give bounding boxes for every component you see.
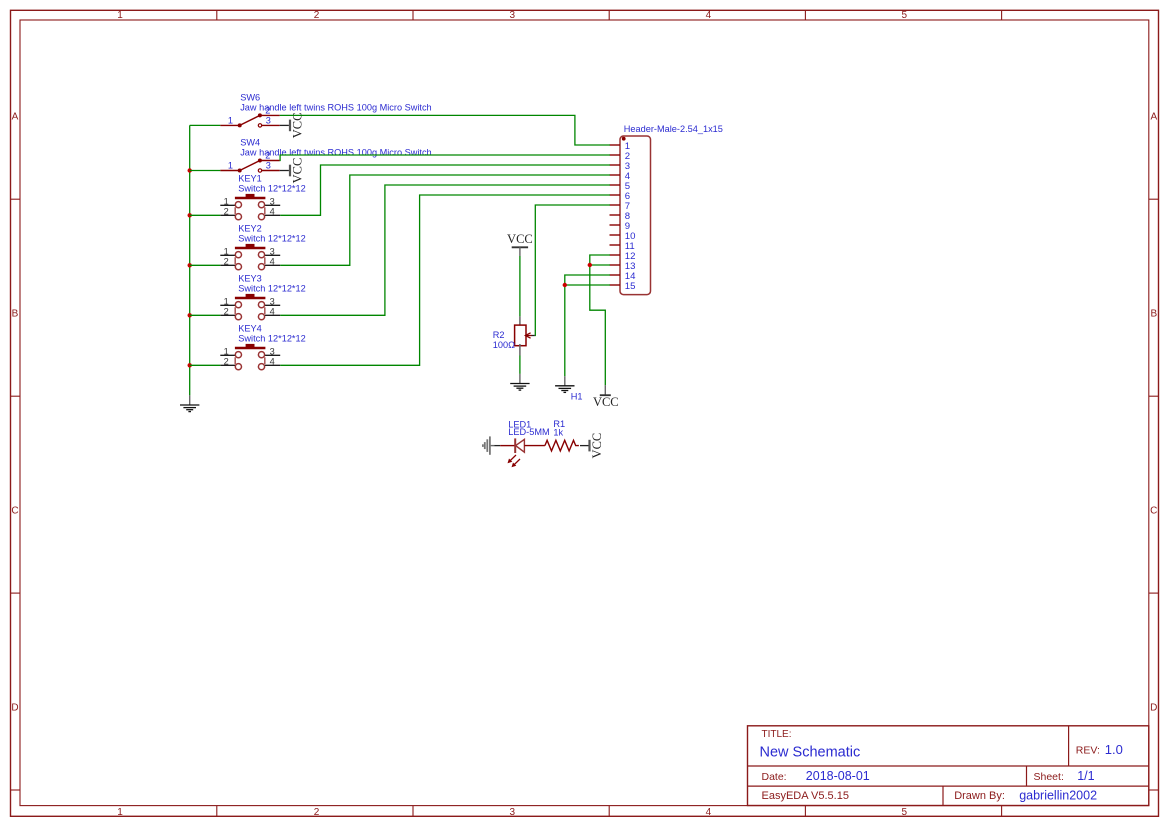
- wire ground to LED1 cathode: [495, 445, 501, 447]
- svg-text:3: 3: [266, 115, 271, 125]
- R2 wiper pin lead: [532, 335, 535, 337]
- header pin 13 stub: [610, 264, 621, 266]
- svg-text:Switch 12*12*12: Switch 12*12*12: [238, 233, 305, 243]
- svg-text:1: 1: [228, 115, 233, 125]
- header pin 4 stub: [610, 174, 621, 176]
- svg-text:gabriellin2002: gabriellin2002: [1019, 788, 1097, 802]
- header pin 9 stub: [610, 224, 621, 226]
- svg-text:A: A: [12, 111, 19, 122]
- wire header pin12 to VCC bottom: [590, 255, 610, 385]
- wire SW4 pin1 to bus: [190, 170, 221, 172]
- svg-text:VCC: VCC: [291, 158, 305, 184]
- svg-text:VCC: VCC: [291, 113, 305, 139]
- header pin 15 stub: [610, 284, 621, 286]
- wire left bus vertical: [189, 125, 191, 395]
- wire header pin7 to R2 wiper: [535, 205, 610, 336]
- svg-text:1: 1: [228, 161, 233, 171]
- svg-text:SW4: SW4: [240, 138, 260, 148]
- svg-text:2: 2: [314, 10, 320, 21]
- svg-text:Header-Male-2.54_1x15: Header-Male-2.54_1x15: [624, 124, 723, 134]
- VCC flag above R2: [507, 232, 533, 256]
- VCC flag at SW4 pin 3: [290, 158, 305, 184]
- svg-text:2018-08-01: 2018-08-01: [806, 769, 870, 783]
- svg-text:2: 2: [314, 807, 320, 818]
- svg-text:1/1: 1/1: [1077, 769, 1094, 783]
- svg-text:2: 2: [224, 256, 229, 266]
- svg-text:4: 4: [270, 356, 275, 366]
- svg-text:1: 1: [224, 246, 229, 256]
- svg-text:1k: 1k: [553, 427, 563, 437]
- R2 bottom pin stub: [519, 344, 521, 356]
- svg-text:4: 4: [706, 807, 712, 818]
- svg-text:1: 1: [117, 10, 123, 21]
- svg-text:15: 15: [625, 281, 636, 292]
- svg-text:SW6: SW6: [240, 92, 260, 102]
- svg-text:4: 4: [270, 206, 275, 216]
- svg-text:3: 3: [270, 196, 275, 206]
- header pin 6 stub: [610, 194, 621, 196]
- svg-text:1: 1: [224, 296, 229, 306]
- svg-text:2: 2: [265, 105, 270, 115]
- junction bus y=170.5: [188, 168, 192, 172]
- potentiometer R2: [493, 325, 532, 350]
- wire KEY pin2 to bus y=365.3: [190, 364, 221, 366]
- svg-text:3: 3: [266, 161, 271, 171]
- svg-text:2: 2: [224, 356, 229, 366]
- svg-text:REV:: REV:: [1076, 745, 1100, 757]
- wire KEY2 pin4 to header pin4: [280, 175, 610, 265]
- svg-text:Date:: Date:: [762, 771, 787, 783]
- wire R1 to VCC: [580, 445, 589, 447]
- svg-text:Switch 12*12*12: Switch 12*12*12: [238, 333, 305, 343]
- connector Header-Male-2.54_1x15: [610, 124, 723, 295]
- svg-text:KEY2: KEY2: [238, 223, 261, 233]
- wire KEY1 pin4 to header pin3: [280, 165, 610, 215]
- junction bus y=365.3: [188, 363, 192, 367]
- junction bus y=215.3: [188, 213, 192, 217]
- pushbutton KEY2: [220, 223, 305, 270]
- svg-text:3: 3: [510, 10, 516, 21]
- svg-text:B: B: [1150, 308, 1157, 319]
- svg-text:D: D: [1150, 702, 1157, 713]
- wire SW4 pin2 to header pin2: [280, 155, 610, 161]
- svg-text:4: 4: [270, 306, 275, 316]
- header pin 1 stub: [610, 144, 621, 146]
- wire VCC to R2 top: [519, 256, 521, 316]
- svg-text:1: 1: [117, 807, 123, 818]
- LED LED1: [500, 419, 549, 467]
- svg-text:5: 5: [902, 10, 908, 21]
- wire R2 bottom to ground: [519, 356, 521, 374]
- svg-text:C: C: [1150, 505, 1157, 516]
- svg-text:KEY1: KEY1: [238, 173, 261, 183]
- frame column numbers: [117, 10, 907, 818]
- ground (bus): [180, 395, 199, 411]
- svg-text:H1: H1: [571, 392, 583, 402]
- wire KEY pin2 to bus y=265.3: [190, 264, 221, 266]
- wire KEY pin2 to bus y=315.3: [190, 314, 221, 316]
- svg-text:4: 4: [706, 10, 712, 21]
- svg-text:1: 1: [224, 196, 229, 206]
- svg-text:2: 2: [224, 306, 229, 316]
- wire KEY3 pin4 to header pin5: [280, 185, 610, 315]
- svg-text:2: 2: [224, 206, 229, 216]
- R2 top pin stub: [519, 316, 521, 325]
- svg-text:3: 3: [510, 807, 516, 818]
- pushbutton KEY1: [220, 173, 305, 219]
- wire header pin14 to H1 ground: [565, 275, 610, 376]
- header pin 2 stub: [610, 154, 621, 156]
- svg-text:3: 3: [270, 296, 275, 306]
- svg-text:KEY3: KEY3: [238, 273, 261, 283]
- resistor R1: [545, 419, 579, 451]
- svg-text:VCC: VCC: [593, 395, 619, 409]
- svg-text:KEY4: KEY4: [238, 323, 261, 333]
- wire KEY4 pin4 to header pin6: [280, 195, 610, 365]
- svg-text:1.0: 1.0: [1105, 742, 1123, 757]
- svg-text:Drawn By:: Drawn By:: [954, 790, 1005, 802]
- header pin 7 stub: [610, 204, 621, 206]
- junction bus y=265.3: [188, 263, 192, 267]
- svg-text:4: 4: [270, 256, 275, 266]
- VCC flag bottom (pin12 net): [593, 385, 619, 409]
- wire KEY pin2 to bus y=215.3: [190, 214, 221, 216]
- header pin 11 stub: [610, 244, 621, 246]
- header pin 5 stub: [610, 184, 621, 186]
- title block: [748, 726, 1149, 806]
- ground H1: [555, 376, 574, 392]
- svg-text:VCC: VCC: [507, 232, 533, 246]
- wire header pin15: [565, 284, 610, 286]
- svg-text:D: D: [11, 702, 18, 713]
- svg-text:3: 3: [270, 246, 275, 256]
- junction pin13: [588, 263, 592, 267]
- ground at LED1 (rotated left): [483, 436, 495, 454]
- header pin 8 stub: [610, 214, 621, 216]
- svg-text:100Ω: 100Ω: [493, 340, 515, 350]
- switch SW4: [220, 138, 431, 173]
- VCC flag right of R1: [590, 433, 605, 459]
- switch SW6: [220, 92, 431, 127]
- header pin 12 stub: [610, 254, 621, 256]
- svg-text:Sheet:: Sheet:: [1034, 771, 1064, 783]
- header pin 14 stub: [610, 274, 621, 276]
- frame row letters: [11, 111, 1157, 713]
- svg-text:5: 5: [902, 807, 908, 818]
- header pin 3 stub: [610, 164, 621, 166]
- VCC flag at SW6 pin 3: [290, 113, 305, 139]
- svg-text:LED-5MM: LED-5MM: [508, 427, 549, 437]
- wire SW6 pin2 to header pin1: [280, 115, 610, 145]
- svg-text:VCC: VCC: [590, 433, 604, 459]
- svg-text:Switch 12*12*12: Switch 12*12*12: [238, 283, 305, 293]
- svg-text:New Schematic: New Schematic: [760, 744, 861, 760]
- svg-text:3: 3: [270, 346, 275, 356]
- pushbutton KEY3: [220, 273, 305, 320]
- pushbutton KEY4: [220, 323, 305, 370]
- svg-text:EasyEDA V5.5.15: EasyEDA V5.5.15: [762, 790, 849, 802]
- svg-text:1: 1: [224, 346, 229, 356]
- svg-text:B: B: [12, 308, 19, 319]
- svg-text:R2: R2: [493, 330, 505, 340]
- svg-text:A: A: [1150, 111, 1157, 122]
- junction bus y=315.3: [188, 313, 192, 317]
- junction pin15: [563, 283, 567, 287]
- header pin 10 stub: [610, 234, 621, 236]
- svg-text:2: 2: [265, 151, 270, 161]
- svg-text:Switch 12*12*12: Switch 12*12*12: [238, 183, 305, 193]
- ground under R2: [510, 374, 529, 390]
- svg-text:TITLE:: TITLE:: [762, 729, 792, 740]
- wire SW6 pin1 to bus: [190, 124, 221, 126]
- wire header pin13: [590, 264, 610, 266]
- svg-text:C: C: [11, 505, 18, 516]
